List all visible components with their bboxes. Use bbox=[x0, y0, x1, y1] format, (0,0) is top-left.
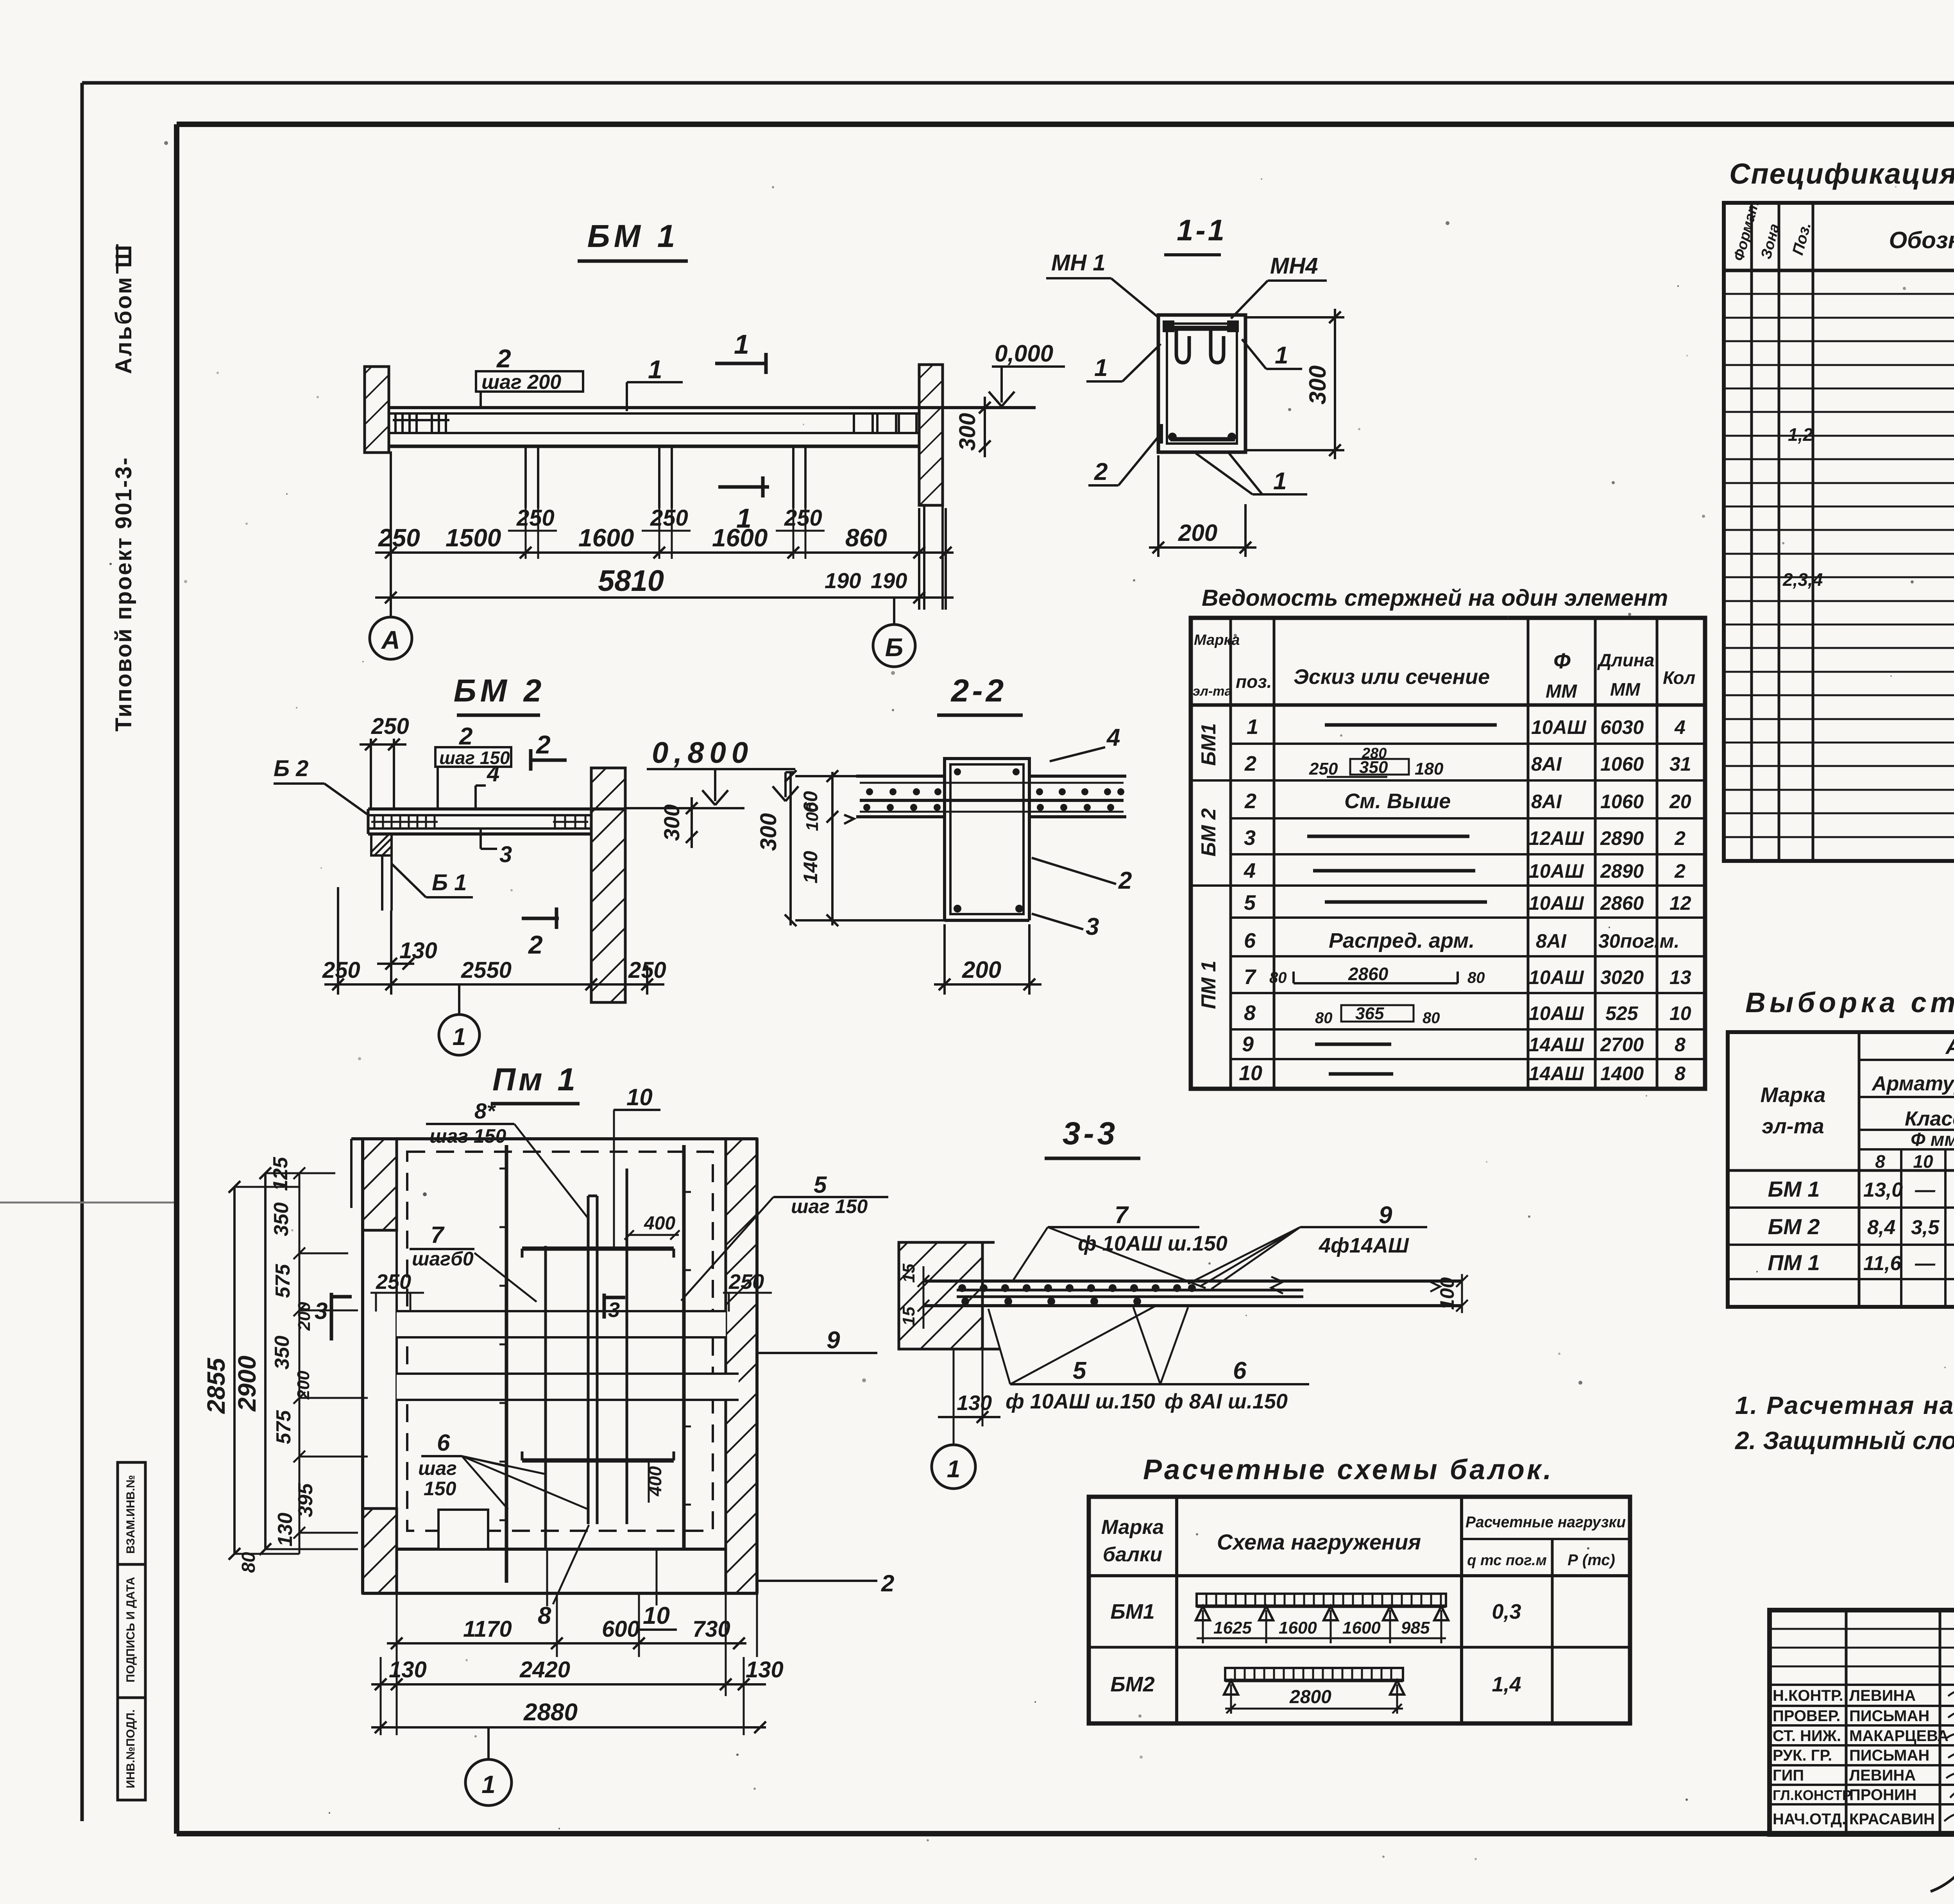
svg-text:250: 250 bbox=[1309, 759, 1338, 778]
svg-text:БМ1: БМ1 bbox=[1197, 723, 1220, 766]
section 1-1 label 1 bottom bbox=[1196, 453, 1307, 495]
specification content BM1 bbox=[1788, 383, 1954, 484]
svg-text:3: 3 bbox=[499, 842, 512, 867]
beam BM1 right wall (hatched) bbox=[919, 365, 943, 610]
svg-text:3: 3 bbox=[1086, 913, 1099, 940]
beam BM2 body bbox=[368, 809, 624, 834]
svg-text:балки: балки bbox=[1103, 1543, 1162, 1566]
rod schedule row 2 bbox=[1244, 745, 1691, 778]
svg-text:1625: 1625 bbox=[1213, 1618, 1252, 1637]
svg-text:1: 1 bbox=[481, 1770, 496, 1798]
slab PM1 left dim 2855 bbox=[202, 1181, 240, 1560]
svg-text:ПРОВЕР.: ПРОВЕР. bbox=[1773, 1707, 1840, 1725]
svg-text:10АШ: 10АШ bbox=[1529, 966, 1584, 988]
beam BM2 label B2 bbox=[274, 756, 368, 815]
steel summary table grid bbox=[1728, 1032, 1954, 1307]
svg-text:180: 180 bbox=[1415, 759, 1444, 778]
svg-text:15: 15 bbox=[899, 1306, 918, 1326]
svg-text:1500: 1500 bbox=[446, 524, 501, 552]
svg-text:ф 10АШ ш.150: ф 10АШ ш.150 bbox=[1006, 1390, 1155, 1413]
svg-text:11,6: 11,6 bbox=[1863, 1252, 1902, 1275]
svg-text:1,2: 1,2 bbox=[1788, 424, 1813, 445]
svg-text:350: 350 bbox=[271, 1336, 293, 1370]
svg-text:10АШ: 10АШ bbox=[1529, 892, 1584, 914]
section 3-3 wall (hatched) bbox=[899, 1242, 1000, 1349]
svg-text:575: 575 bbox=[272, 1264, 294, 1298]
rod schedule row 4 bbox=[1244, 826, 1686, 850]
svg-text:РУК. ГР.: РУК. ГР. bbox=[1773, 1747, 1832, 1764]
svg-text:80: 80 bbox=[1467, 969, 1485, 986]
svg-text:2: 2 bbox=[1674, 827, 1686, 849]
beam BM1 stirrup boxes right group bbox=[854, 413, 916, 433]
svg-text:—: — bbox=[1915, 1179, 1936, 1201]
svg-text:1060: 1060 bbox=[1600, 753, 1644, 775]
svg-text:2: 2 bbox=[528, 930, 543, 959]
title block frame bbox=[1770, 1610, 1954, 1834]
slab PM1 label 6 bbox=[418, 1430, 588, 1509]
svg-text:4: 4 bbox=[1244, 859, 1256, 882]
svg-text:14АШ: 14АШ bbox=[1529, 1063, 1584, 1084]
svg-text:ИНВ.№ПОДЛ.: ИНВ.№ПОДЛ. bbox=[124, 1709, 137, 1788]
specification content BM2 bbox=[1782, 530, 1954, 627]
svg-text:5: 5 bbox=[1244, 891, 1256, 914]
section 3-3 label 5 bbox=[988, 1306, 1214, 1413]
svg-text:4: 4 bbox=[1674, 716, 1686, 738]
svg-text:250: 250 bbox=[650, 505, 688, 531]
svg-text:10: 10 bbox=[1913, 1151, 1933, 1172]
svg-text:q тс пог.м: q тс пог.м bbox=[1467, 1552, 1547, 1569]
svg-text:ММ: ММ bbox=[1610, 679, 1641, 700]
beam BM1 section cut 1 (bottom) bbox=[718, 476, 769, 533]
svg-text:См. Выше: См. Выше bbox=[1344, 789, 1451, 813]
svg-text:Марка: Марка bbox=[1101, 1516, 1164, 1539]
svg-text:1. Расчетная нагрузка на перек: 1. Расчетная нагрузка на перекрытие прин… bbox=[1735, 1391, 1954, 1419]
svg-text:1: 1 bbox=[947, 1456, 960, 1483]
svg-text:80: 80 bbox=[238, 1552, 259, 1573]
section 3-3 dim 130 bbox=[938, 1350, 1000, 1446]
svg-text:ГЛ.КОНСТР: ГЛ.КОНСТР bbox=[1773, 1787, 1852, 1803]
slab PM1 cross beam band 2 bbox=[397, 1374, 739, 1400]
slab PM1 title bbox=[491, 1062, 580, 1104]
svg-text:Н.КОНТР.: Н.КОНТР. bbox=[1773, 1687, 1843, 1704]
svg-text:10АШ: 10АШ bbox=[1529, 1002, 1584, 1024]
section 1-1 label MH1 bbox=[1046, 250, 1158, 317]
svg-text:1600: 1600 bbox=[1342, 1618, 1381, 1637]
beam BM1 dimension chain 250 1500 1600 1600 860 bbox=[375, 451, 954, 617]
svg-text:Распред. арм.: Распред. арм. bbox=[1329, 929, 1474, 952]
slab PM1 bottom extension lines bbox=[381, 1593, 757, 1735]
slab PM1 bottom transverse bar 10 bbox=[522, 1451, 674, 1460]
scan artifact line bbox=[0, 1202, 174, 1204]
section 3-3 dims 15 15 bbox=[899, 1263, 929, 1329]
slab PM1 rebar line 5 bbox=[626, 1169, 628, 1524]
svg-text:80: 80 bbox=[1269, 969, 1287, 986]
svg-text:1,4: 1,4 bbox=[1492, 1673, 1521, 1696]
rod schedule header texts bbox=[1193, 632, 1695, 702]
svg-text:250: 250 bbox=[728, 1270, 764, 1294]
svg-text:ГИП: ГИП bbox=[1773, 1767, 1804, 1784]
steel summary row PM1 bbox=[1768, 1250, 1954, 1278]
svg-text:250: 250 bbox=[516, 505, 555, 531]
svg-text:эл-та: эл-та bbox=[1193, 684, 1232, 699]
svg-text:ПРОНИН: ПРОНИН bbox=[1849, 1786, 1917, 1804]
svg-text:8: 8 bbox=[1675, 1063, 1686, 1084]
svg-text:2: 2 bbox=[1674, 860, 1686, 882]
section 1-1 corner bars bbox=[1163, 320, 1239, 441]
section 3-3 label 7 bbox=[1012, 1202, 1228, 1288]
svg-text:8,4: 8,4 bbox=[1867, 1216, 1895, 1239]
svg-text:ф 8АI ш.150: ф 8АI ш.150 bbox=[1165, 1390, 1288, 1413]
svg-text:860: 860 bbox=[845, 524, 887, 552]
beam BM2 top dim 250 bbox=[360, 714, 409, 809]
svg-text:9: 9 bbox=[1242, 1033, 1254, 1056]
svg-text:1400: 1400 bbox=[1600, 1063, 1644, 1084]
beam BM2 level 0.800 bbox=[625, 736, 795, 808]
rod schedule row 3 bbox=[1244, 789, 1691, 813]
svg-text:Расчетные нагрузки: Расчетные нагрузки bbox=[1465, 1514, 1626, 1531]
beam BM2 label B1 bbox=[392, 864, 473, 897]
steel summary row BM2 bbox=[1768, 1214, 1954, 1242]
svg-text:Пм 1: Пм 1 bbox=[492, 1062, 578, 1097]
beam BM1 stirrups left group bbox=[393, 413, 449, 433]
svg-text:250: 250 bbox=[322, 957, 360, 983]
svg-text:3-3: 3-3 bbox=[1063, 1116, 1118, 1151]
beam BM1 axis circle A bbox=[370, 617, 412, 659]
slab PM1 callout 10 top bbox=[614, 1084, 660, 1247]
svg-text:7: 7 bbox=[431, 1222, 445, 1248]
svg-text:1: 1 bbox=[736, 503, 752, 533]
svg-text:БМ 1: БМ 1 bbox=[1768, 1177, 1820, 1201]
section 3-3 title bbox=[1045, 1116, 1140, 1158]
beam scheme row BM1 bbox=[1110, 1600, 1521, 1623]
svg-text:ММ: ММ bbox=[1546, 681, 1577, 702]
svg-text:80: 80 bbox=[1315, 1009, 1333, 1027]
svg-text:шаг 150: шаг 150 bbox=[791, 1195, 868, 1217]
svg-text:2855: 2855 bbox=[202, 1357, 230, 1414]
svg-text:300: 300 bbox=[659, 804, 684, 841]
svg-text:31: 31 bbox=[1669, 753, 1691, 775]
svg-text:ПМ 1: ПМ 1 bbox=[1768, 1250, 1820, 1275]
svg-text:10АШ: 10АШ bbox=[1529, 860, 1584, 882]
svg-text:10: 10 bbox=[626, 1084, 653, 1110]
svg-text:7: 7 bbox=[1115, 1202, 1129, 1229]
svg-text:2890: 2890 bbox=[1600, 827, 1644, 849]
rod schedule row 9 bbox=[1244, 1001, 1691, 1027]
steel summary header texts bbox=[1761, 1034, 1954, 1172]
svg-text:2: 2 bbox=[496, 344, 511, 373]
svg-text:Б 2: Б 2 bbox=[274, 756, 308, 781]
svg-text:12: 12 bbox=[1669, 892, 1691, 914]
svg-text:2,3,4: 2,3,4 bbox=[1782, 569, 1823, 590]
svg-text:1: 1 bbox=[734, 329, 749, 360]
slab PM1 left segment dims bbox=[238, 1157, 317, 1573]
svg-text:СТ. НИЖ.: СТ. НИЖ. bbox=[1773, 1727, 1841, 1745]
beam BM2 left support B1 (hatched) bbox=[371, 834, 392, 911]
slab PM1 left dim 2900 bbox=[233, 1167, 271, 1555]
section 1-1 label MH4 bbox=[1231, 253, 1327, 319]
svg-text:200: 200 bbox=[1178, 520, 1217, 546]
svg-text:400: 400 bbox=[645, 1466, 665, 1496]
svg-text:2-2: 2-2 bbox=[950, 673, 1007, 709]
svg-text:Б 1: Б 1 bbox=[432, 870, 467, 895]
svg-text:365: 365 bbox=[1355, 1004, 1384, 1023]
svg-text:Выборка стали на один элемент,: Выборка стали на один элемент, кГ bbox=[1745, 987, 1954, 1018]
beam BM1 callout 2 шаг 200 bbox=[476, 344, 583, 408]
section 1-1 label 1 right bbox=[1242, 339, 1302, 369]
svg-text:ВЗАМ.ИНВ.№: ВЗАМ.ИНВ.№ bbox=[124, 1475, 137, 1554]
beam BM1 leg dims 250 bbox=[508, 508, 825, 559]
svg-text:6: 6 bbox=[1244, 929, 1256, 952]
svg-text:100: 100 bbox=[803, 802, 822, 831]
rod schedule row 7 bbox=[1244, 929, 1680, 952]
svg-text:12АШ: 12АШ bbox=[1529, 827, 1584, 849]
beam BM1 support legs bbox=[526, 446, 805, 508]
svg-text:ф 10АШ ш.150: ф 10АШ ш.150 bbox=[1078, 1232, 1228, 1255]
svg-text:ПИСЬМАН: ПИСЬМАН bbox=[1849, 1707, 1929, 1725]
slab PM1 dim 400 bottom bbox=[645, 1462, 665, 1503]
svg-text:шаг 150: шаг 150 bbox=[429, 1125, 506, 1147]
svg-text:350: 350 bbox=[270, 1203, 293, 1237]
slab PM1 bottom dim chain 2 bbox=[371, 1679, 766, 1690]
specification table row lines bbox=[1724, 294, 1954, 837]
svg-text:730: 730 bbox=[692, 1616, 730, 1642]
svg-text:4: 4 bbox=[1106, 724, 1120, 751]
rod schedule mark labels rotated bbox=[1197, 723, 1220, 1009]
svg-text:600: 600 bbox=[602, 1616, 640, 1642]
beam BM2 axis circle 1 bbox=[439, 984, 480, 1055]
specification header texts bbox=[1730, 199, 1954, 267]
section 2-2 label 3 bbox=[1032, 913, 1099, 940]
svg-text:8: 8 bbox=[538, 1602, 551, 1629]
svg-text:6: 6 bbox=[437, 1430, 450, 1456]
svg-text:2. Защитный слой арматуры для: 2. Защитный слой арматуры для балок 15мм… bbox=[1735, 1426, 1954, 1455]
slab PM1 section flag 3 left bbox=[315, 1293, 352, 1340]
svg-text:8АI: 8АI bbox=[1531, 753, 1562, 775]
slab PM1 dim 250 left bbox=[370, 1270, 424, 1312]
svg-text:130: 130 bbox=[746, 1657, 784, 1682]
svg-text:130: 130 bbox=[957, 1391, 992, 1415]
svg-text:130: 130 bbox=[399, 938, 437, 963]
svg-text:шагб0: шагб0 bbox=[412, 1248, 474, 1270]
svg-text:Эскиз или сечение: Эскиз или сечение bbox=[1294, 665, 1490, 689]
beam scheme table grid bbox=[1089, 1497, 1630, 1723]
svg-text:3,5: 3,5 bbox=[1911, 1216, 1940, 1239]
slab PM1 dim 250 right bbox=[723, 1270, 772, 1312]
svg-text:2900: 2900 bbox=[233, 1356, 261, 1412]
svg-text:2880: 2880 bbox=[523, 1699, 578, 1726]
svg-text:Р (тс): Р (тс) bbox=[1567, 1551, 1615, 1569]
beam BM1 dimension 5810 bbox=[375, 564, 954, 603]
slab PM1 label 9 bbox=[757, 1327, 877, 1354]
slab PM1 rebar line 7 bbox=[499, 1145, 506, 1583]
svg-text:2700: 2700 bbox=[1600, 1034, 1644, 1056]
beam BM1 axis circle B bbox=[873, 598, 915, 667]
slab PM1 cross beam band 1 bbox=[397, 1311, 726, 1337]
svg-text:20: 20 bbox=[1669, 791, 1691, 812]
svg-text:13,0: 13,0 bbox=[1863, 1179, 1903, 1201]
slab PM1 top transverse bar 10 bbox=[522, 1249, 674, 1258]
section 3-3 break mark bbox=[1271, 1277, 1283, 1294]
slab PM1 axis circle 1 bbox=[465, 1727, 512, 1806]
svg-text:ПМ 1: ПМ 1 bbox=[1197, 961, 1220, 1009]
beam BM1 body bbox=[389, 408, 1036, 446]
svg-text:395: 395 bbox=[294, 1483, 317, 1517]
svg-text:ПИСЬМАН: ПИСЬМАН bbox=[1849, 1747, 1929, 1764]
svg-text:8: 8 bbox=[1675, 1034, 1686, 1056]
svg-text:Ведомость стержней на один эле: Ведомость стержней на один элемент bbox=[1202, 585, 1668, 611]
svg-text:Арматурная сталь ГОСТ: Арматурная сталь ГОСТ bbox=[1871, 1072, 1954, 1095]
svg-text:БМ1: БМ1 bbox=[1110, 1600, 1154, 1623]
svg-text:Ф мм: Ф мм bbox=[1911, 1129, 1954, 1150]
section 3-3 label 6 bbox=[1133, 1307, 1309, 1413]
svg-text:6: 6 bbox=[1233, 1357, 1247, 1384]
svg-text:МН4: МН4 bbox=[1270, 253, 1318, 279]
svg-text:10АШ: 10АШ bbox=[1531, 716, 1587, 738]
svg-text:А: А bbox=[381, 625, 400, 654]
beam BM2 callout 3 bbox=[481, 829, 512, 867]
svg-text:4: 4 bbox=[487, 761, 499, 786]
svg-text:2: 2 bbox=[1094, 458, 1108, 485]
svg-text:2: 2 bbox=[459, 723, 472, 750]
svg-text:2800: 2800 bbox=[1289, 1687, 1331, 1707]
svg-text:5810: 5810 bbox=[598, 564, 664, 598]
section 2-2 label 4 bbox=[1050, 724, 1120, 761]
svg-text:5: 5 bbox=[1073, 1357, 1087, 1384]
svg-text:140: 140 bbox=[800, 851, 821, 884]
svg-text:ЛЕВИНА: ЛЕВИНА bbox=[1849, 1767, 1916, 1784]
section 2-2 title bbox=[937, 673, 1023, 715]
svg-text:0,3: 0,3 bbox=[1492, 1600, 1521, 1623]
svg-text:БМ 2: БМ 2 bbox=[1768, 1214, 1820, 1239]
svg-text:8: 8 bbox=[1244, 1001, 1256, 1025]
svg-text:1-1: 1-1 bbox=[1177, 214, 1227, 247]
beam scheme table header bbox=[1101, 1514, 1626, 1569]
section 1-1 label 1 left bbox=[1086, 344, 1161, 381]
section 2-2 label 2 bbox=[1032, 858, 1132, 894]
svg-text:Длина: Длина bbox=[1597, 650, 1654, 670]
title block signature rows bbox=[1773, 1687, 1949, 1828]
section 2-2 slab and rib outline bbox=[856, 759, 1126, 920]
svg-text:2860: 2860 bbox=[1348, 964, 1389, 984]
section 3-3 slab bbox=[923, 1281, 1462, 1306]
slab PM1 door opening bbox=[438, 1510, 488, 1549]
section 1-1 concrete outline bbox=[1158, 315, 1245, 452]
rod schedule row 11 bbox=[1239, 1061, 1686, 1085]
beam BM1 dim 300 (right) bbox=[955, 397, 991, 457]
svg-text:3: 3 bbox=[608, 1298, 620, 1322]
svg-text:6030: 6030 bbox=[1600, 716, 1644, 738]
section 3-3 dim 100 right bbox=[1430, 1274, 1468, 1313]
svg-text:250: 250 bbox=[628, 957, 666, 983]
svg-text:БМ 2: БМ 2 bbox=[1197, 808, 1220, 857]
svg-text:8АI: 8АI bbox=[1536, 930, 1567, 952]
rod schedule row 10 bbox=[1242, 1033, 1686, 1056]
svg-text:2550: 2550 bbox=[461, 957, 512, 983]
svg-text:шаг: шаг bbox=[418, 1457, 457, 1479]
slab PM1 callout 7 bbox=[410, 1222, 537, 1302]
beam BM1 section cut 1 (top) bbox=[715, 329, 766, 374]
svg-text:БМ 2: БМ 2 bbox=[454, 673, 546, 709]
svg-text:НАЧ.ОТД.: НАЧ.ОТД. bbox=[1773, 1811, 1846, 1828]
svg-text:10: 10 bbox=[1239, 1061, 1262, 1085]
section 2-2 dim 200 bbox=[934, 924, 1041, 995]
svg-text:2890: 2890 bbox=[1600, 860, 1644, 882]
slab PM1 callout 8* bbox=[426, 1099, 589, 1219]
svg-text:300: 300 bbox=[1304, 365, 1331, 404]
slab PM1 rebar line right bbox=[684, 1145, 691, 1548]
specification table grid bbox=[1724, 203, 1954, 861]
svg-text:0,000: 0,000 bbox=[995, 340, 1053, 367]
beam BM2 stirrups bbox=[371, 815, 588, 829]
svg-text:2: 2 bbox=[1118, 867, 1132, 894]
beam BM2 right wall (hatched) bbox=[591, 768, 625, 1002]
slab PM1 label 10 bottom bbox=[640, 1548, 677, 1630]
beam BM2 dim 300 right bbox=[659, 797, 698, 848]
svg-text:10: 10 bbox=[643, 1602, 670, 1629]
slab PM1 section flag 3 inner bbox=[604, 1294, 625, 1322]
section 3-3 label 9 bbox=[1188, 1202, 1427, 1289]
svg-text:250: 250 bbox=[371, 714, 409, 739]
svg-text:МН 1: МН 1 bbox=[1051, 250, 1106, 276]
svg-text:шаг 200: шаг 200 bbox=[481, 371, 561, 394]
left margin label: Альбом III bbox=[111, 243, 136, 374]
svg-text:БМ2: БМ2 bbox=[1110, 1673, 1154, 1696]
beam scheme row BM2 bbox=[1110, 1673, 1521, 1696]
svg-text:1: 1 bbox=[1094, 354, 1108, 381]
beam BM1 left wall (hatched) bbox=[365, 367, 389, 453]
svg-text:200: 200 bbox=[295, 1302, 314, 1331]
beam BM2 section cut 2 (bottom) bbox=[522, 907, 559, 959]
svg-text:Б: Б bbox=[885, 633, 904, 662]
slab PM1 rebar pair bbox=[588, 1196, 597, 1524]
svg-text:Расчетные схемы балок.: Расчетные схемы балок. bbox=[1143, 1454, 1553, 1485]
beam scheme BM2 load diagram bbox=[1224, 1668, 1404, 1714]
beam BM2 callout 4 bbox=[476, 761, 499, 808]
svg-text:2: 2 bbox=[1244, 752, 1256, 775]
svg-text:30пог.м.: 30пог.м. bbox=[1598, 930, 1680, 952]
svg-text:5: 5 bbox=[814, 1172, 827, 1198]
slab PM1 plan walls bbox=[363, 1139, 757, 1593]
svg-text:2: 2 bbox=[1244, 789, 1256, 813]
svg-text:13: 13 bbox=[1669, 966, 1691, 988]
section 3-3 rebar dots bbox=[958, 1284, 1196, 1305]
section 1-1 anchor hooks bbox=[1176, 330, 1224, 363]
svg-text:9: 9 bbox=[827, 1327, 840, 1354]
svg-text:190: 190 bbox=[871, 568, 907, 593]
svg-text:Кол: Кол bbox=[1663, 667, 1695, 688]
section 2-2 left dims 300 60 100 140 bbox=[785, 770, 945, 926]
beam BM2 bottom dims bbox=[324, 887, 664, 1002]
svg-text:Марка: Марка bbox=[1761, 1083, 1826, 1107]
rod schedule table grid bbox=[1191, 618, 1705, 1089]
svg-text:3: 3 bbox=[1244, 826, 1256, 850]
beam BM2 callout 2 шаг 150 bbox=[435, 723, 511, 809]
rod schedule row 5 bbox=[1244, 859, 1686, 882]
slab PM1 bottom dim chain 1 bbox=[387, 1637, 746, 1649]
svg-text:80: 80 bbox=[1423, 1009, 1440, 1027]
svg-text:0,800: 0,800 bbox=[652, 736, 753, 769]
left margin label: Типовой проект 901-3- bbox=[111, 456, 136, 732]
svg-text:1600: 1600 bbox=[1279, 1618, 1317, 1637]
svg-text:250: 250 bbox=[378, 524, 420, 552]
svg-text:100: 100 bbox=[1436, 1277, 1458, 1310]
rod schedule row 6 bbox=[1244, 891, 1691, 914]
left margin stamp strip boxes bbox=[118, 1462, 145, 1800]
slab PM1 left segment chain bbox=[234, 1167, 368, 1554]
svg-text:150: 150 bbox=[424, 1478, 456, 1500]
svg-text:15: 15 bbox=[899, 1263, 918, 1283]
left margin stamp strip texts bbox=[124, 1475, 137, 1788]
